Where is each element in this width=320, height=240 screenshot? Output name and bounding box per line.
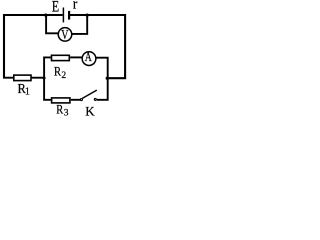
- node: junction dot right of battery: [86, 13, 89, 16]
- wire: R2 to ammeter: [70, 56, 82, 58]
- resistor R3: [52, 98, 70, 103]
- resistor R1: [14, 75, 31, 81]
- svg-text:E: E: [52, 0, 59, 16]
- ammeter A: [82, 52, 96, 66]
- wire: ammeter right + inner right vertical + switch right stub: [96, 58, 108, 100]
- wire: voltmeter loop right: [72, 15, 88, 34]
- svg-text:r: r: [73, 0, 77, 13]
- svg-text:V: V: [61, 27, 68, 42]
- resistor R2: [52, 55, 70, 60]
- wire: left outer wire and top-left segment to battery: [4, 15, 63, 78]
- wire: R1 to central vertical: [31, 77, 44, 79]
- voltmeter V: [58, 28, 72, 42]
- wire: R3 to switch: [71, 99, 81, 101]
- battery E long plate: [62, 8, 64, 23]
- node: junction dot R1 / central vertical: [43, 77, 46, 80]
- switch K blade: [82, 90, 97, 98]
- svg-text:3: 3: [64, 108, 69, 117]
- wire: voltmeter loop left: [46, 15, 58, 33]
- node: junction dot left of battery: [44, 13, 47, 16]
- battery short plate: [68, 11, 70, 20]
- switch K left contact: [80, 99, 82, 101]
- node: junction dot on inner vertical at connector: [106, 77, 109, 80]
- svg-text:1: 1: [25, 87, 30, 98]
- wire: R2 branch left + central vertical + R3 branch left: [44, 57, 52, 99]
- svg-text:2: 2: [61, 71, 66, 81]
- svg-text:R: R: [56, 102, 64, 116]
- wire: top-right segment from battery, right outer wire, connector to inner vertical: [70, 15, 125, 78]
- wire: R1 branch left from outer wire: [3, 77, 14, 79]
- switch K right contact: [94, 98, 96, 100]
- svg-text:K: K: [85, 104, 95, 117]
- svg-text:A: A: [85, 49, 92, 64]
